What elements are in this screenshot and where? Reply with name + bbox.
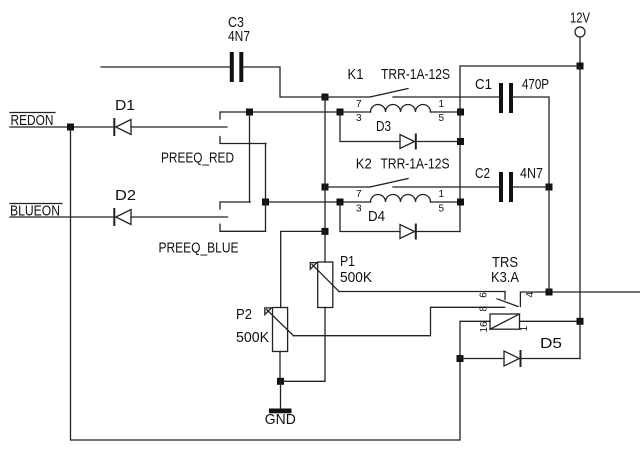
node GND junction <box>277 378 284 385</box>
potentiometer P2 <box>265 308 294 352</box>
inductor K2 coil right lead <box>431 201 461 203</box>
relay coil TRS K3.A box <box>490 314 520 329</box>
diode D5 <box>504 351 521 366</box>
wire C2 right to junction <box>513 186 549 188</box>
svg-text:P2: P2 <box>236 306 252 323</box>
relay contact K2 fixed contact and wire to C2 <box>393 186 499 188</box>
wire C3 to K1 pin7 <box>243 67 325 97</box>
relay contact K1 blade <box>370 89 408 98</box>
svg-text:470P: 470P <box>522 76 549 93</box>
inductor K1 coil left lead <box>340 111 371 113</box>
wire BLUEON to D2 <box>10 216 114 218</box>
relay contact PREEQ_BLUE bottom terminal <box>220 224 266 231</box>
svg-text:P1: P1 <box>340 253 355 270</box>
relay contact TRS blade <box>497 299 518 307</box>
wire TRS pin16 <box>460 321 490 358</box>
wire to K2 contact <box>325 186 370 188</box>
wire to GND <box>280 381 282 408</box>
svg-text:K1: K1 <box>348 66 364 83</box>
svg-text:PREEQ_BLUE: PREEQ_BLUE <box>159 240 239 257</box>
wire PREEQ_RED top to PREEQ_BLUE top <box>249 112 251 202</box>
svg-text:GND: GND <box>265 411 296 428</box>
svg-text:4: 4 <box>525 292 536 298</box>
wire TRS pin4 from right edge <box>520 292 640 307</box>
svg-text:1: 1 <box>439 189 445 200</box>
svg-text:500K: 500K <box>236 329 269 346</box>
relay contact PREEQ_BLUE top terminal <box>220 202 250 209</box>
svg-text:C2: C2 <box>475 165 490 182</box>
node K2 coil pin5 <box>457 199 464 206</box>
wire P2 bottom to GND node <box>279 352 281 382</box>
svg-text:5: 5 <box>439 204 445 215</box>
svg-text:C1: C1 <box>475 76 492 93</box>
wire D2 to PREEQ_BLUE common <box>131 216 228 218</box>
svg-text:500K: 500K <box>340 269 372 286</box>
svg-text:8: 8 <box>478 306 489 312</box>
supply 12V <box>570 10 590 38</box>
wire C-rail to pin4 wire <box>548 187 550 292</box>
svg-text:7: 7 <box>356 189 362 200</box>
node PREEQ_BLUE feed on coil row <box>262 199 269 206</box>
wire D5 cathode <box>521 358 581 360</box>
svg-text:TRR-1A-12S: TRR-1A-12S <box>381 66 450 83</box>
potentiometer P1 <box>310 262 339 308</box>
wire 12V branch to K coils rail <box>460 66 580 232</box>
wire K contacts rail to P1 <box>324 97 326 262</box>
svg-text:1: 1 <box>439 99 445 110</box>
svg-text:D4: D4 <box>368 208 385 225</box>
wire REDON to D1 <box>10 126 114 128</box>
diode D3 <box>400 135 416 149</box>
relay contact PREEQ_RED bottom terminal <box>220 137 266 144</box>
net label BLUEON with overline <box>10 203 62 220</box>
node PREEQ_RED top branch <box>246 109 253 116</box>
wire to K1 contact <box>325 96 370 98</box>
capacitor C3 <box>230 52 244 82</box>
svg-text:K3.A: K3.A <box>491 269 519 286</box>
svg-text:PREEQ_RED: PREEQ_RED <box>161 150 234 167</box>
inductor K1 coil <box>371 105 431 112</box>
inductor K1 coil right lead <box>431 111 461 113</box>
wire P1 wiper to TRS pin6 <box>339 291 505 293</box>
svg-text:K2: K2 <box>356 156 372 173</box>
svg-text:5: 5 <box>439 113 445 124</box>
node junction C1/C2 right <box>546 184 553 191</box>
wire C3 left lead <box>101 66 230 68</box>
wire left and bottom rail <box>71 127 461 440</box>
svg-text:3: 3 <box>356 113 362 124</box>
wire D3 cathode to rail <box>416 141 461 143</box>
diode D4 <box>400 225 416 239</box>
svg-text:7: 7 <box>356 99 362 110</box>
wire 12V rail down <box>579 66 581 321</box>
relay contact TRS pin6 stub <box>504 292 506 300</box>
node D5 anode junction <box>457 355 464 362</box>
svg-text:16: 16 <box>479 321 490 333</box>
svg-text:3: 3 <box>356 204 362 215</box>
node junction K1 pin7 wire / vertical rail <box>322 94 329 101</box>
wire D3 anode drop <box>340 112 400 142</box>
inductor K2 coil <box>371 195 431 203</box>
relay contact K2 blade <box>370 179 408 188</box>
svg-text:D5: D5 <box>540 335 562 352</box>
svg-text:TRR-1A-12S: TRR-1A-12S <box>381 156 450 173</box>
node junction 12V branch <box>577 63 584 70</box>
wire TRS pin1 to 12V rail <box>520 320 581 322</box>
relay contact PREEQ_RED top terminal <box>220 112 340 119</box>
wire D4 anode drop <box>340 202 400 232</box>
svg-text:12V: 12V <box>570 10 590 27</box>
wire D4 cathode to rail <box>416 231 460 233</box>
svg-text:D1: D1 <box>115 97 135 114</box>
wire D5 anode <box>460 358 504 360</box>
svg-text:1: 1 <box>519 325 530 331</box>
diode D1 <box>114 119 131 135</box>
net label REDON with overline <box>10 112 55 129</box>
capacitor C1 <box>499 83 513 113</box>
wire 12V to rail <box>579 37 581 66</box>
node K2 coil pin3 <box>337 199 344 206</box>
svg-text:D3: D3 <box>376 118 391 135</box>
wire 12V rail to D5 cathode <box>579 321 581 358</box>
svg-text:4N7: 4N7 <box>520 165 543 182</box>
wire C1 right to junction with C2 <box>513 97 549 187</box>
node K1 coil pin3 <box>337 109 344 116</box>
node D3 cathode on rail <box>457 138 464 145</box>
svg-text:6: 6 <box>478 292 489 298</box>
svg-text:D2: D2 <box>115 187 136 204</box>
wire P2 wiper to TRS pin8 <box>294 307 505 335</box>
node P1 top junction <box>322 228 329 235</box>
svg-text:4N7: 4N7 <box>228 28 250 45</box>
node K2 pin7 junction <box>322 184 329 191</box>
relay contact K1 fixed contact and wire to C1 <box>393 96 499 98</box>
node K1 coil pin5 <box>457 109 464 116</box>
capacitor C2 <box>499 172 513 202</box>
node 12V rail / pin1 <box>577 318 584 325</box>
node junction C-rail on pin4 wire <box>546 289 553 296</box>
node REDON branch <box>67 124 74 131</box>
wire D1 to PREEQ_RED common <box>131 126 227 128</box>
wire K2 coil row <box>266 201 371 203</box>
diode D2 <box>114 209 131 225</box>
wire P1 bottom to GND node <box>281 308 326 382</box>
wire PREEQ_RED bottom to K2 coil row <box>265 144 267 232</box>
ground GND <box>265 409 296 429</box>
wire P2 top to P1 node <box>281 231 325 307</box>
